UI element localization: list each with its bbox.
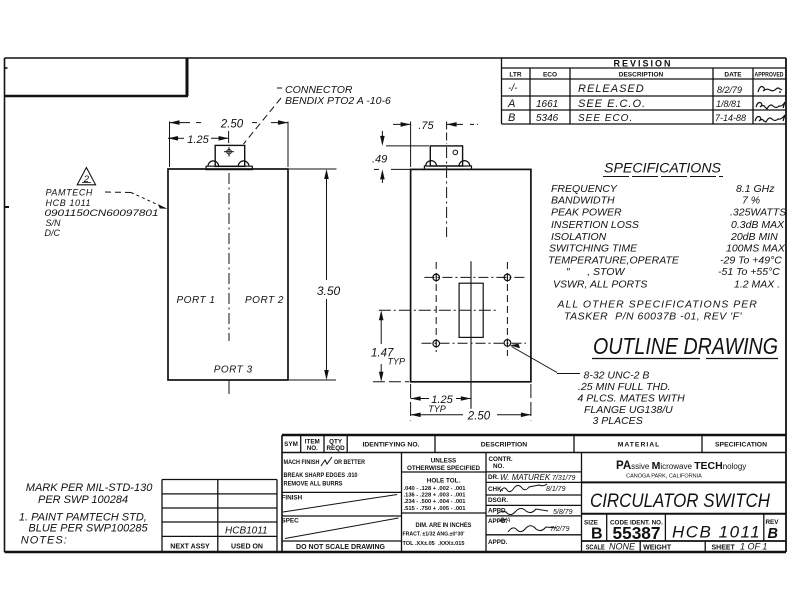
dimension 3.50 (front) [289, 169, 337, 380]
next assy / used on table [162, 480, 277, 553]
svg-text:REVISION: REVISION [613, 59, 672, 69]
svg-text:8.1 GHz: 8.1 GHz [736, 183, 775, 195]
svg-text:-/-: -/- [508, 83, 518, 94]
finish symbol check [283, 457, 399, 539]
svg-text:NO.: NO. [493, 463, 504, 470]
svg-text:5346: 5346 [536, 113, 559, 124]
svg-text:TYP: TYP [428, 404, 446, 414]
side view centerlines [379, 122, 526, 409]
outline drawing title [593, 333, 778, 359]
svg-text:IDENTIFYING NO.: IDENTIFYING NO. [362, 442, 419, 449]
svg-text:PAMTECH: PAMTECH [46, 188, 94, 198]
front connector crosshair [224, 147, 234, 157]
svg-text:HCB 1011: HCB 1011 [46, 198, 92, 208]
dimension 1.25 (front) [168, 131, 229, 143]
svg-text:BANDWIDTH: BANDWIDTH [551, 195, 615, 207]
svg-text:SPECIFICATIONS: SPECIFICATIONS [604, 161, 721, 176]
svg-text:NONE: NONE [609, 542, 636, 552]
svg-text:-29 To +49°C: -29 To +49°C [720, 255, 782, 267]
svg-text:LTR: LTR [509, 72, 521, 79]
svg-text:B: B [591, 526, 603, 543]
svg-text:0.3dB MAX: 0.3dB MAX [731, 219, 785, 231]
svg-text:BENDIX PTO2 A -10-6: BENDIX PTO2 A -10-6 [285, 95, 391, 107]
front view outline [168, 169, 288, 380]
svg-text:PER SWP 100284: PER SWP 100284 [38, 494, 128, 506]
svg-text:HOLE TOL.: HOLE TOL. [427, 478, 461, 485]
connector callout [285, 84, 391, 107]
svg-text:DIM. ARE IN INCHES: DIM. ARE IN INCHES [416, 522, 472, 529]
svg-text:ECO: ECO [543, 72, 557, 79]
svg-text:1.2 MAX .: 1.2 MAX . [734, 279, 780, 291]
svg-text:1/8/81: 1/8/81 [716, 99, 741, 109]
size/code/number row [584, 519, 779, 543]
svg-text:CANOGA PARK, CALIFORNIA: CANOGA PARK, CALIFORNIA [626, 474, 702, 480]
side view outline [411, 169, 531, 381]
svg-text:INSERTION LOSS: INSERTION LOSS [551, 219, 639, 231]
svg-text:SWITCHING TIME: SWITCHING TIME [549, 243, 638, 255]
svg-text:1661: 1661 [536, 99, 558, 110]
svg-text:REV: REV [766, 519, 780, 526]
svg-text:USED ON: USED ON [231, 544, 263, 551]
svg-text:.234 - .500 + .004 - .001: .234 - .500 + .004 - .001 [404, 499, 467, 505]
waveguide aperture rectangle [459, 283, 483, 337]
svg-text:8/2/79: 8/2/79 [717, 85, 742, 95]
svg-text:.515 - .750 + .005 - .001: .515 - .750 + .005 - .001 [404, 506, 467, 512]
svg-text:20dB MIN: 20dB MIN [730, 231, 778, 243]
svg-text:SCALE: SCALE [586, 545, 605, 552]
svg-text:BLUE PER SWP100285: BLUE PER SWP100285 [28, 523, 148, 535]
side connector body [424, 146, 471, 170]
svg-text:PORT 3: PORT 3 [214, 365, 253, 376]
approvals column [488, 456, 513, 546]
svg-text:TOL .XX±.05 .XXX±.015: TOL .XX±.05 .XXX±.015 [403, 541, 466, 547]
svg-text:FREQUENCY: FREQUENCY [551, 183, 618, 195]
company logo [616, 460, 746, 480]
svg-text:OUTLINE DRAWING: OUTLINE DRAWING [593, 333, 778, 359]
svg-text:-51 To +55°C: -51 To +55°C [718, 266, 780, 278]
pamtech leader arrow [105, 192, 168, 209]
dimension .49 (side) [374, 131, 429, 183]
svg-text:.75: .75 [418, 120, 434, 132]
svg-text:NEXT ASSY: NEXT ASSY [170, 544, 210, 551]
svg-text:7-14-88: 7-14-88 [715, 113, 746, 123]
dimension 2.50 (side) [411, 413, 531, 418]
specifications list [548, 183, 786, 323]
svg-text:PORT 1: PORT 1 [177, 295, 216, 306]
svg-text:B: B [768, 526, 778, 542]
svg-text:UNLESS: UNLESS [431, 458, 457, 465]
mounting holes [433, 273, 511, 348]
svg-text:W. MATUREK: W. MATUREK [500, 473, 551, 482]
revision table text [507, 59, 784, 125]
svg-text:PEAK POWER: PEAK POWER [551, 207, 622, 219]
svg-text:PORT 2: PORT 2 [245, 295, 284, 306]
finish notes [282, 459, 386, 551]
svg-text:APPD.: APPD. [488, 539, 507, 546]
svg-text:.49: .49 [372, 154, 387, 166]
svg-text:DR.: DR. [488, 474, 499, 481]
svg-text:.040 - .128 + .002 - .001: .040 - .128 + .002 - .001 [404, 486, 467, 492]
svg-text:D/C: D/C [45, 228, 61, 238]
svg-text:SEE E.C.O.: SEE E.C.O. [578, 98, 646, 110]
specifications title [604, 161, 721, 176]
notes bottom left [19, 482, 153, 547]
tolerance box text [403, 458, 481, 548]
svg-text:WEIGHT: WEIGHT [643, 545, 672, 552]
revision table [502, 58, 787, 124]
title block header text [284, 439, 767, 453]
thread note text [578, 370, 686, 427]
top-left notch box [5, 58, 189, 207]
svg-text:NO.: NO. [307, 445, 318, 452]
svg-text:8/1/79: 8/1/79 [546, 486, 566, 493]
front view centerline [228, 173, 230, 394]
svg-text:PAssive Microwave TECHnology: PAssive Microwave TECHnology [616, 460, 746, 472]
svg-text:3.50: 3.50 [317, 284, 341, 298]
svg-text:S/A: S/A [500, 517, 510, 524]
svg-text:7/2/79: 7/2/79 [550, 526, 570, 533]
svg-text:DATE: DATE [724, 72, 742, 79]
svg-text:.136 - .228 + .003 - .001: .136 - .228 + .003 - .001 [404, 493, 467, 499]
svg-text:OR BETTER: OR BETTER [334, 459, 365, 466]
front connector body [206, 145, 252, 169]
svg-text:4 PLCS. MATES WITH: 4 PLCS. MATES WITH [578, 392, 686, 404]
port labels [177, 295, 284, 376]
svg-text:DO NOT SCALE DRAWING: DO NOT SCALE DRAWING [296, 542, 385, 551]
svg-text:100MS MAX: 100MS MAX [726, 243, 786, 255]
svg-text:APPROVED: APPROVED [755, 72, 784, 79]
revision signatures [755, 87, 785, 122]
svg-text:0901150CN60097801: 0901150CN60097801 [45, 208, 159, 218]
svg-text:HCB1011: HCB1011 [225, 526, 268, 537]
svg-text:CIRCULATOR SWITCH: CIRCULATOR SWITCH [590, 490, 771, 512]
svg-text:CONTR.: CONTR. [489, 456, 513, 463]
svg-text:TEMPERATURE,OPERATE: TEMPERATURE,OPERATE [548, 255, 680, 267]
drawing title text [590, 490, 771, 512]
svg-text:MARK PER MIL-STD-130: MARK PER MIL-STD-130 [26, 482, 153, 494]
svg-text:S/N: S/N [46, 218, 62, 228]
svg-text:1 OF 1: 1 OF 1 [740, 542, 767, 552]
svg-text:ISOLATION: ISOLATION [551, 231, 607, 243]
svg-text:FRACT. ±1/32 ANG.±0°30': FRACT. ±1/32 ANG.±0°30' [403, 532, 466, 538]
svg-text:55387: 55387 [613, 523, 661, 543]
thread note leader [510, 344, 581, 374]
svg-text:2.50: 2.50 [467, 411, 491, 423]
svg-text:2.50: 2.50 [220, 119, 244, 131]
svg-text:.25 MIN FULL THD.: .25 MIN FULL THD. [578, 381, 671, 393]
svg-text:NOTES:: NOTES: [21, 535, 68, 547]
svg-text:7 %: 7 % [742, 195, 760, 207]
svg-text:SPECIFICATION: SPECIFICATION [715, 442, 767, 449]
svg-text:MACH FINISH: MACH FINISH [284, 459, 320, 466]
approval signatures [497, 484, 557, 532]
svg-text:SHEET: SHEET [712, 545, 736, 552]
svg-text:DSGR.: DSGR. [488, 497, 508, 504]
dimension 1.47 TYP (side) [373, 310, 409, 382]
svg-text:HCB 1011: HCB 1011 [672, 523, 761, 542]
svg-text:B: B [508, 112, 515, 124]
svg-text:TYP: TYP [388, 357, 406, 367]
svg-text:″ , STOW: ″ , STOW [566, 266, 625, 278]
svg-text:7/31/79: 7/31/79 [552, 475, 575, 482]
svg-text:REQD: REQD [326, 445, 345, 452]
svg-text:DESCRIPTION: DESCRIPTION [619, 72, 664, 79]
svg-text:SPEC: SPEC [282, 518, 300, 525]
svg-text:BREAK SHARP EDGES .010: BREAK SHARP EDGES .010 [284, 472, 358, 479]
svg-text:2: 2 [83, 174, 90, 185]
dimension .75 (side) [393, 122, 478, 168]
svg-text:REMOVE ALL BURRS: REMOVE ALL BURRS [284, 481, 343, 488]
svg-text:SYM: SYM [284, 441, 298, 448]
svg-text:8-32 UNC-2 B: 8-32 UNC-2 B [584, 370, 650, 382]
svg-text:.325WATTS: .325WATTS [730, 207, 786, 219]
svg-text:DESCRIPTION: DESCRIPTION [481, 442, 528, 449]
sheet border [5, 58, 787, 552]
svg-text:3 PLACES: 3 PLACES [593, 415, 643, 427]
svg-text:VSWR, ALL PORTS: VSWR, ALL PORTS [553, 279, 647, 291]
svg-text:MATERIAL: MATERIAL [618, 442, 661, 449]
pamtech flag note triangle 2 [77, 168, 95, 185]
svg-text:TASKER P/N 60037B -01, REV 'F: TASKER P/N 60037B -01, REV 'F' [564, 311, 743, 323]
svg-text:5/8/79: 5/8/79 [553, 509, 573, 516]
svg-text:SEE ECO.: SEE ECO. [578, 113, 633, 124]
svg-text:FINISH: FINISH [282, 495, 303, 502]
dimension 1.25 TYP (side) [411, 384, 531, 421]
pamtech marking note [45, 188, 159, 239]
svg-text:A: A [507, 98, 515, 110]
svg-text:RELEASED: RELEASED [578, 83, 645, 95]
scale weight sheet row [586, 542, 768, 552]
title block grid [282, 435, 786, 552]
svg-text:1.25: 1.25 [187, 134, 209, 146]
svg-text:OTHERWISE SPECIFIED: OTHERWISE SPECIFIED [407, 465, 480, 472]
svg-text:ALL OTHER SPECIFICATIONS PER: ALL OTHER SPECIFICATIONS PER [557, 299, 758, 311]
dimension 2.50 (front) [170, 120, 289, 167]
